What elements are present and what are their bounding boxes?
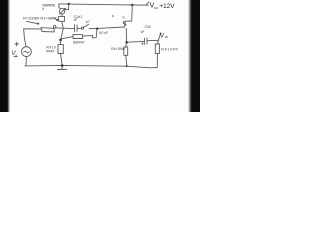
wire from R0 down crossing input wire to node B <box>61 21 64 40</box>
arrow from label to R0 <box>55 18 58 20</box>
wire switch to node A <box>89 28 97 30</box>
node C <box>125 41 128 44</box>
svg-text:80k#1#: 80k#1# <box>73 40 84 44</box>
wire top supply rail <box>59 4 149 5</box>
svg-text:oL: oL <box>165 35 169 39</box>
node J2 <box>131 4 133 6</box>
svg-text:R#10#R: R#10#R <box>161 47 178 51</box>
resistor R0 box below pot <box>59 16 65 21</box>
node B <box>59 39 62 42</box>
label R2 value <box>46 45 56 53</box>
label plus sign <box>15 42 19 46</box>
svg-text:U?: U? <box>86 20 90 24</box>
wire mid horizontal node A to switch b <box>98 27 125 28</box>
label C2 value <box>141 25 151 34</box>
capacitor C2 <box>142 38 147 45</box>
wire node C to C2 <box>127 40 144 43</box>
label minus sign <box>14 56 17 58</box>
potentiometer R1 box <box>41 25 56 31</box>
switch S2 arrow blade tip <box>124 24 126 27</box>
switch K contact <box>81 27 83 29</box>
wiper terminal circle <box>53 25 56 28</box>
svg-text:uF: uF <box>74 18 78 22</box>
wire node B to R2 <box>60 40 62 45</box>
wire R1 to C1 <box>56 27 74 30</box>
svg-text:cc: cc <box>154 6 158 10</box>
switch K blade <box>84 24 89 27</box>
resistor R3 <box>61 35 93 39</box>
ground node dot <box>61 64 64 67</box>
svg-text:C2#: C2# <box>145 25 151 29</box>
svg-text:R=100K# R1=48#R: R=100K# R1=48#R <box>23 17 57 21</box>
node at R4 bottom <box>126 65 128 67</box>
node A <box>96 28 98 30</box>
svg-text:####: #### <box>46 50 54 54</box>
node J1 <box>68 3 70 5</box>
svg-text:uF: uF <box>141 30 145 34</box>
capacitor C1 <box>75 25 82 32</box>
resistor R4 <box>124 42 128 66</box>
wire C2 to output node <box>147 39 158 41</box>
svg-text:a: a <box>112 14 114 18</box>
label Vo <box>160 33 169 40</box>
svg-text:R2#470K: R2#470K <box>43 4 57 8</box>
label C1 value <box>74 15 83 22</box>
label RP value text <box>42 4 56 11</box>
svg-text:R4=10##: R4=10## <box>111 47 125 51</box>
wire node A down to R3 <box>93 29 97 38</box>
wire output node down to RL <box>157 40 160 44</box>
label Vcc +12V <box>146 2 175 10</box>
potentiometer RP body <box>59 4 69 17</box>
source Vs circle <box>22 47 32 66</box>
svg-text:+12V: +12V <box>159 3 175 10</box>
resistor R2 <box>58 45 63 54</box>
svg-text:b: b <box>123 15 125 19</box>
wire bottom rail <box>25 54 158 68</box>
wire input left branch <box>24 29 41 47</box>
wire node b down to node C <box>125 28 127 42</box>
wire R2 to ground rail <box>61 54 63 66</box>
output terminal stroke up to Vo <box>158 33 161 41</box>
resistor RL <box>155 44 159 53</box>
ground symbol <box>58 66 67 70</box>
svg-text:#: # <box>42 7 44 11</box>
arrow from label to R1 <box>27 21 40 24</box>
svg-text:50uF: 50uF <box>99 31 108 35</box>
switch S2 contact to rail <box>123 5 132 23</box>
